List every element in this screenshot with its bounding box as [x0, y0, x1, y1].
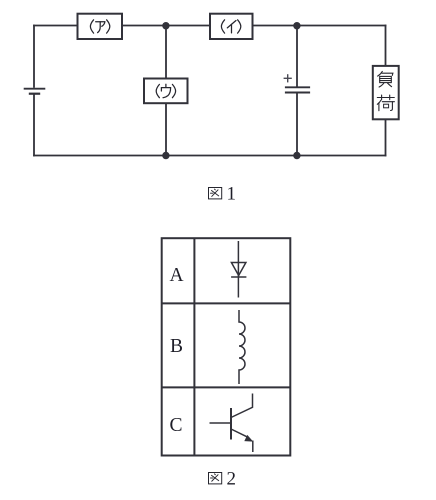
wire top middle (box ア to box イ) — [122, 25, 210, 27]
table row divider 2 — [162, 386, 291, 388]
node junction dot top (capacitor branch) — [293, 22, 300, 29]
label (ウ) katakana U in parens — [156, 84, 175, 98]
box (ア) — [78, 14, 123, 39]
svg-text:2: 2 — [227, 469, 237, 490]
label A — [170, 265, 184, 286]
label 負 (kanji "fu") — [378, 71, 393, 87]
label B — [170, 336, 183, 357]
table column divider — [193, 238, 195, 455]
box (ウ) — [144, 79, 188, 104]
wire right vertical upper (to load) — [385, 25, 387, 66]
wire left vertical upper (to battery +) — [33, 25, 35, 88]
wire right vertical lower (load to bottom) — [385, 119, 387, 156]
node junction dot top-left — [162, 22, 169, 29]
load box 負荷 — [373, 66, 399, 119]
wire from node down to box ウ — [165, 26, 167, 79]
svg-text:1: 1 — [227, 184, 237, 205]
node junction dot bottom (under ウ) — [162, 152, 169, 159]
inductor L (row B) — [239, 310, 245, 384]
capacitor C1 plates — [285, 87, 310, 92]
svg-text:C: C — [170, 415, 183, 436]
node junction dot bottom (capacitor branch) — [293, 152, 300, 159]
wire bottom horizontal — [33, 155, 386, 157]
caption 図1: numeral 1 — [227, 184, 237, 205]
caption 図2: numeral 2 — [227, 469, 237, 490]
capacitor C1 polarity plus sign — [284, 74, 292, 82]
wire from box ウ down to bottom node — [165, 103, 167, 155]
wire left vertical lower (battery - to bottom) — [33, 94, 35, 157]
svg-text:B: B — [170, 336, 183, 357]
caption 図1: kanji 図 — [209, 188, 222, 199]
wire from capacitor down to bottom node — [296, 93, 298, 156]
transistor emitter arrowhead — [244, 435, 253, 442]
table figure2 outer border — [162, 238, 291, 455]
label (ア) katakana A in parens — [90, 20, 109, 33]
svg-text:A: A — [170, 265, 184, 286]
wire top right (box イ to right corner) — [253, 25, 387, 27]
diode D (row A) — [231, 241, 246, 298]
table row divider 1 — [162, 302, 291, 304]
label 荷 (kanji "ka") — [377, 95, 394, 111]
label (イ) katakana I in parens — [221, 20, 240, 33]
box (イ) — [210, 14, 253, 39]
label C — [170, 415, 183, 436]
caption 図2: kanji 図 — [209, 473, 222, 484]
transistor Q (row C) — [210, 394, 253, 453]
wire top-left horizontal — [33, 25, 77, 27]
wire from top node down to capacitor — [296, 26, 298, 88]
battery V1 — [24, 89, 46, 94]
